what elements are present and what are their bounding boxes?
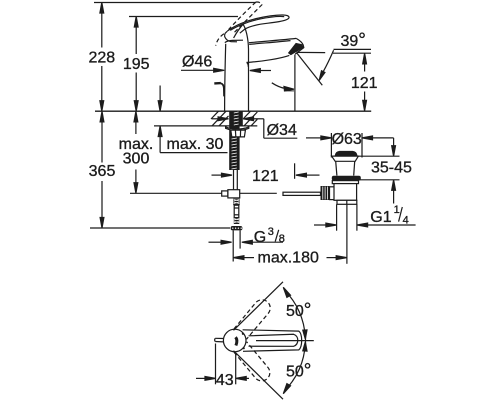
svg-text:39°: 39° <box>341 30 366 51</box>
39 deg label and underline <box>334 30 372 51</box>
dim 365 <box>89 111 116 228</box>
dim Ø63 <box>306 131 394 148</box>
spout tip outline <box>295 38 304 54</box>
axis extension line down <box>234 351 284 400</box>
svg-text:Ø34: Ø34 <box>267 122 297 139</box>
ref line basin bottom <box>359 179 400 181</box>
svg-text:3: 3 <box>268 226 274 238</box>
threaded shank <box>229 111 243 170</box>
drain centerline / max180 right extension <box>346 205 348 264</box>
dashed raised handle edge 2 <box>233 5 262 34</box>
svg-text:4: 4 <box>403 215 409 227</box>
lever top view outer <box>243 330 302 352</box>
spout aerator dark wedge <box>288 43 304 55</box>
svg-text:365: 365 <box>89 163 116 180</box>
drain collar <box>337 200 357 204</box>
arc 50 upper <box>283 287 307 339</box>
dim 228 <box>88 3 115 112</box>
dashed handle up position <box>234 300 270 339</box>
hook mark left of body <box>214 82 221 85</box>
knurled knob <box>321 186 330 200</box>
lever top view inner <box>249 334 298 346</box>
stream line <box>297 53 323 86</box>
spout extension line upper <box>294 55 296 111</box>
centerline tick <box>305 337 307 344</box>
G38 tube left edge / max180 left extension <box>232 230 234 261</box>
lever crease <box>234 23 244 38</box>
drain plug cap <box>335 152 357 156</box>
spout top inner line <box>249 41 290 45</box>
hose connector mid <box>234 205 239 217</box>
arc 50 lower <box>283 342 307 394</box>
svg-text:max. 30: max. 30 <box>167 136 224 153</box>
stub pin <box>215 338 224 342</box>
extension line top (228 ref) <box>94 2 256 4</box>
tee fitting left block <box>222 191 228 196</box>
dim 43 <box>196 344 249 389</box>
svg-text:max.180: max.180 <box>258 249 319 266</box>
hatch left <box>211 111 229 126</box>
dashed handle down position <box>234 342 270 381</box>
ref line basin top <box>358 155 399 157</box>
faucet body left edge <box>225 44 226 111</box>
dashed raised handle edge 1 <box>229 2 256 29</box>
pop-up rod bar <box>283 192 321 195</box>
dim 35-45 lower arrow <box>392 180 396 204</box>
screw dots <box>242 333 244 335</box>
dashed raised handle tail <box>216 34 224 46</box>
connector block <box>330 187 340 200</box>
dim 121 vertical <box>351 53 378 111</box>
svg-text:Ø46: Ø46 <box>182 54 212 71</box>
drain seal dark band <box>332 176 361 181</box>
body circle top view <box>223 329 246 352</box>
svg-text:121: 121 <box>252 168 279 185</box>
dim max300 <box>119 111 154 193</box>
dim max180 <box>233 249 346 266</box>
dim G38 <box>209 226 285 246</box>
dashed raised handle cap <box>256 2 262 4</box>
svg-text:G1: G1 <box>370 209 391 226</box>
spout top edge <box>249 38 296 42</box>
axis extension line up <box>234 282 284 331</box>
countertop underside <box>154 125 257 127</box>
drain tailpipe <box>336 204 338 230</box>
lever top edge <box>227 15 289 33</box>
drain band2 <box>332 181 358 184</box>
spout outlet ref line <box>297 51 326 53</box>
drain neck <box>336 161 355 175</box>
faucet neck right arc and body right edge <box>243 24 249 111</box>
G38 tube right edge <box>239 230 241 248</box>
extension line 195 ref <box>129 16 238 18</box>
svg-text:35-45: 35-45 <box>371 160 412 177</box>
svg-text:43: 43 <box>216 372 234 389</box>
ref line segment right <box>333 52 371 54</box>
countertop <box>95 110 371 112</box>
lever top inner line <box>230 16 284 30</box>
39 deg arc with arrowhead <box>319 50 333 80</box>
svg-text:228: 228 <box>88 50 115 67</box>
hose braid section 1 <box>233 199 240 206</box>
svg-text:121: 121 <box>351 75 378 92</box>
spout underside <box>247 55 290 62</box>
hose end nut <box>231 226 243 230</box>
washer under counter <box>226 127 249 131</box>
mounting nut <box>231 130 246 137</box>
Ø63 extension lines <box>330 133 332 158</box>
dim max30 upper arrow <box>158 86 162 112</box>
hose lines below shank <box>233 170 235 190</box>
svg-text:300: 300 <box>123 151 150 168</box>
spout-body junction fillet <box>247 62 249 67</box>
drain valve body <box>334 184 357 201</box>
faucet dome top <box>225 40 243 42</box>
stream small curved arrow <box>272 83 294 91</box>
pop-up rod line right <box>240 192 277 194</box>
bottom reference line 365 <box>90 227 230 229</box>
drain flange <box>332 156 359 161</box>
dim Ø34 <box>212 117 297 139</box>
lever rear tail <box>225 31 237 42</box>
dim 121 horizontal <box>212 168 320 185</box>
lever centerline <box>256 340 314 342</box>
tee fitting middle block <box>228 190 240 198</box>
dim 195 <box>123 17 150 112</box>
svg-text:G: G <box>254 229 266 246</box>
svg-text:8: 8 <box>279 233 285 245</box>
pop-up rod line left <box>130 192 222 194</box>
dim G1 1/4 <box>314 204 416 227</box>
svg-text:195: 195 <box>123 56 150 73</box>
svg-text:1: 1 <box>394 204 400 216</box>
dim Ø46 <box>181 54 271 73</box>
svg-text:50°: 50° <box>286 300 311 321</box>
svg-text:50°: 50° <box>286 361 311 382</box>
dim 35-45 upper arrow <box>392 138 396 156</box>
spout extension line lower <box>294 163 296 179</box>
svg-text:Ø63: Ø63 <box>332 131 362 148</box>
hose braid section 2 <box>234 218 240 224</box>
hatch right <box>244 111 258 126</box>
pivot dark mark <box>236 337 237 345</box>
dim max30 lower arrow and label line <box>158 126 227 153</box>
